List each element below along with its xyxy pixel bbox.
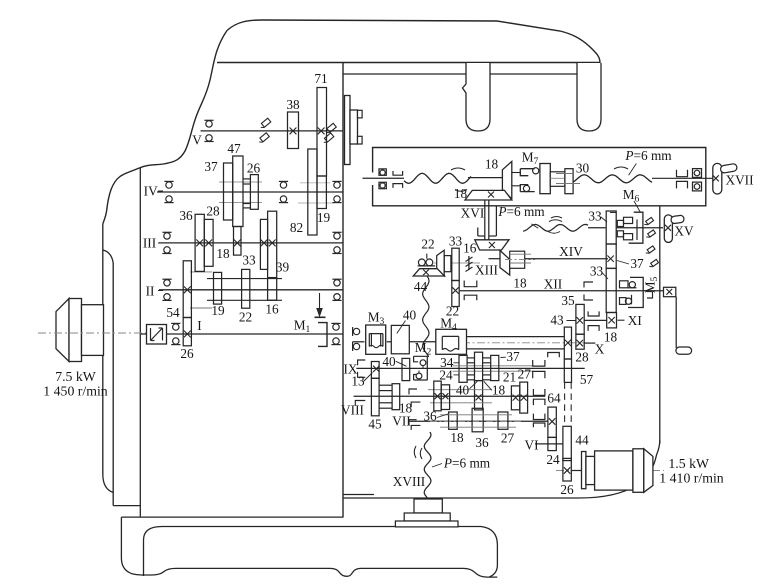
svg-text:28: 28 xyxy=(575,350,589,365)
svg-text:24: 24 xyxy=(546,452,560,467)
spline lines IX xyxy=(453,365,535,367)
svg-text:27: 27 xyxy=(518,366,532,381)
svg-text:26: 26 xyxy=(560,482,574,497)
bevel square crank xyxy=(664,287,676,296)
bearing screw right xyxy=(693,169,702,178)
x 28col xyxy=(565,340,571,346)
gear 30 xyxy=(565,169,573,194)
gear 28 on III xyxy=(204,219,213,266)
table lead screw housing box xyxy=(373,148,706,206)
shaft IX xyxy=(356,367,584,369)
bearing I right xyxy=(333,324,339,330)
svg-text:XVII: XVII xyxy=(725,172,753,187)
handle XVII xyxy=(713,163,722,194)
svg-text:27: 27 xyxy=(501,430,515,445)
x gear26i xyxy=(184,331,191,338)
x gear39 xyxy=(269,240,276,247)
shaft X left line xyxy=(352,341,364,343)
right column right wall lower xyxy=(659,206,661,444)
svg-text:45: 45 xyxy=(368,417,382,432)
clutch M6 xyxy=(617,220,623,226)
leader 33 low xyxy=(602,273,608,280)
svg-text:XI: XI xyxy=(628,313,642,328)
mesh lines shaft II cluster xyxy=(207,278,282,280)
flags M5 xyxy=(647,246,655,253)
shaft XVI vertical xyxy=(484,201,486,240)
link lines bevel-M7 xyxy=(512,172,521,174)
gear 19 on IV xyxy=(317,176,326,209)
gear 33 on XIII col xyxy=(452,248,459,280)
mesh lines hub XIV xyxy=(510,253,531,255)
gear 82 on IV xyxy=(308,149,317,235)
svg-text:16: 16 xyxy=(265,302,279,317)
leader 40VIII xyxy=(470,381,478,389)
x 26motor xyxy=(564,467,570,473)
svg-text:71: 71 xyxy=(314,71,327,86)
gear 33 on III xyxy=(260,219,267,269)
svg-text:IV: IV xyxy=(144,183,158,198)
hub bevel left of XIII xyxy=(437,250,445,276)
shaft XI line xyxy=(584,319,607,321)
spindle block xyxy=(345,96,351,165)
svg-text:18: 18 xyxy=(492,383,506,398)
svg-text:44: 44 xyxy=(414,279,428,294)
shaft XV line xyxy=(588,227,606,229)
shaft VI xyxy=(535,443,563,445)
mesh lines shaft IV cluster xyxy=(219,181,262,183)
gear 13 on IX xyxy=(371,362,379,379)
gear 21 on VIII xyxy=(511,386,519,410)
gear 22 circles on XIII xyxy=(418,259,425,266)
brackets screw right xyxy=(677,170,688,177)
x 21 xyxy=(513,395,519,401)
label M5 rotated xyxy=(643,276,661,293)
gear 40 on IX xyxy=(402,358,410,380)
svg-text:XVI: XVI xyxy=(461,206,485,221)
bearing II left xyxy=(164,280,170,286)
svg-text:26: 26 xyxy=(180,346,194,361)
feed motor body xyxy=(595,451,633,490)
svg-text:7.5 kW: 7.5 kW xyxy=(55,369,96,384)
shaft VII xyxy=(408,420,548,422)
svg-text:24: 24 xyxy=(439,368,453,383)
gear 26 on IV xyxy=(250,175,258,210)
right column top edge xyxy=(343,73,577,75)
svg-text:40: 40 xyxy=(456,383,470,398)
gear 35-43 xyxy=(576,304,584,334)
brackets XII right xyxy=(584,282,593,300)
overarm support leg right xyxy=(577,63,601,131)
x gear36 xyxy=(196,240,203,247)
base outer outline xyxy=(121,517,497,577)
bracket VIII right xyxy=(533,389,545,395)
leader 33 top xyxy=(601,217,607,222)
clutch M7 body xyxy=(540,164,550,194)
svg-text:1 410 r/min: 1 410 r/min xyxy=(659,470,723,485)
gear mid col lower on VIII xyxy=(475,381,483,410)
M7 hub xyxy=(550,172,565,187)
x bevel44 xyxy=(423,270,429,276)
gear 28 on X col xyxy=(564,327,571,359)
x 24a xyxy=(435,393,441,399)
handle XV xyxy=(664,215,672,243)
leader 13 xyxy=(364,373,373,382)
svg-text:16: 16 xyxy=(463,240,477,255)
gear 26 motor xyxy=(563,458,571,481)
gear 34 on IX xyxy=(459,355,467,382)
bearing V left xyxy=(206,121,212,127)
svg-text:P=6 mm: P=6 mm xyxy=(443,455,491,470)
svg-text:44: 44 xyxy=(575,432,589,447)
brackets VIII left xyxy=(355,401,365,406)
gear 40 on X xyxy=(391,325,409,353)
svg-text:VII: VII xyxy=(392,413,410,428)
svg-text:18: 18 xyxy=(513,276,527,291)
svg-text:I: I xyxy=(197,318,201,333)
svg-text:13: 13 xyxy=(351,374,365,389)
svg-text:XV: XV xyxy=(674,224,694,239)
shaft VIII xyxy=(354,395,546,397)
right column bottom edge upper line xyxy=(343,494,374,496)
machine top cover outline xyxy=(227,20,600,63)
x 24b xyxy=(442,393,448,399)
shaft XIII center line xyxy=(434,262,480,264)
svg-text:III: III xyxy=(143,236,156,251)
svg-text:36: 36 xyxy=(179,208,193,223)
gear 26 on I xyxy=(183,318,191,346)
svg-text:18: 18 xyxy=(604,330,618,345)
x col XI xyxy=(608,317,614,323)
clutch M3 box xyxy=(366,325,386,354)
svg-text:35: 35 xyxy=(561,293,575,308)
gear 57 col xyxy=(564,359,571,382)
x col XIV xyxy=(607,256,613,262)
bearing screw left xyxy=(379,169,386,175)
bearing III right xyxy=(334,233,340,239)
sleeve bars 47-26 xyxy=(243,178,250,180)
bevel 18 upper on screw xyxy=(502,161,511,199)
brackets IX right xyxy=(533,360,545,366)
svg-text:57: 57 xyxy=(580,372,594,387)
svg-text:38: 38 xyxy=(286,97,300,112)
svg-text:82: 82 xyxy=(290,220,303,235)
gear 18 on VIII xyxy=(392,384,400,410)
svg-text:21: 21 xyxy=(503,369,516,384)
main motor center line xyxy=(38,332,147,334)
inner wall branch arc xyxy=(103,250,113,263)
overload clutch on I xyxy=(147,325,167,345)
gear 38 on V xyxy=(288,112,299,149)
x 43b xyxy=(577,340,583,346)
headstock top edge line xyxy=(217,62,600,64)
gear 27 on VIII xyxy=(520,382,528,413)
leader 40X xyxy=(397,321,406,334)
x gear28 xyxy=(205,240,212,247)
brackets VII right xyxy=(533,414,545,420)
bearing IV right xyxy=(334,182,340,188)
clutch M1 jaw xyxy=(318,323,327,347)
gear 22 on XII col xyxy=(452,281,459,307)
svg-text:19: 19 xyxy=(317,210,331,225)
bearing M3 left xyxy=(353,328,359,334)
svg-text:XII: XII xyxy=(544,276,562,291)
svg-text:30: 30 xyxy=(576,161,590,176)
gear 54 on II xyxy=(183,261,191,318)
bracket X left support xyxy=(548,353,560,358)
gear 22 on II xyxy=(242,269,250,308)
hub on XIV xyxy=(510,251,525,268)
crank handle xyxy=(676,347,692,354)
svg-text:33: 33 xyxy=(242,253,256,268)
gear 37 on IV xyxy=(224,163,233,220)
gear mid IX col upper xyxy=(475,352,483,380)
mesh lines gear30 xyxy=(556,173,573,175)
x gear71 xyxy=(318,128,325,135)
x 27viii xyxy=(521,395,527,401)
gear 16 spline xyxy=(468,256,470,270)
brackets VII left xyxy=(409,389,420,430)
feed motor spacer xyxy=(586,456,595,484)
svg-text:18: 18 xyxy=(450,430,464,445)
gear 19 on II xyxy=(214,272,222,304)
gear 36 on VII xyxy=(472,408,483,432)
svg-text:VI: VI xyxy=(524,437,538,452)
gear 16 on II xyxy=(268,278,277,301)
clutch M2 xyxy=(426,356,428,380)
wavy screw 44 down xyxy=(423,277,429,358)
break marks XV xyxy=(549,220,562,222)
svg-text:33: 33 xyxy=(588,208,602,223)
bearing II right xyxy=(334,280,340,286)
svg-text:VIII: VIII xyxy=(341,402,364,417)
leader P6 top xyxy=(629,164,637,176)
svg-text:XIV: XIV xyxy=(559,244,583,259)
shaft IV xyxy=(157,191,343,193)
clutch M4 box xyxy=(436,329,467,354)
x 64 xyxy=(549,418,555,424)
outer wall bottom arc xyxy=(103,474,113,493)
svg-text:36: 36 xyxy=(423,409,437,424)
brackets XI xyxy=(588,311,599,316)
headstock bottom edge xyxy=(121,516,343,518)
gear 27 on VII xyxy=(498,412,508,429)
shaft XIV xyxy=(489,258,501,260)
x gear38 xyxy=(290,128,297,135)
shift flags spindle xyxy=(327,123,336,132)
x mid col VIII xyxy=(476,394,482,400)
svg-text:40: 40 xyxy=(382,354,396,369)
center line VII cluster xyxy=(430,421,522,423)
leader M6 xyxy=(634,201,641,213)
bevel 18 on XIV xyxy=(500,251,510,276)
x 43 xyxy=(577,317,583,323)
gear 71 on V xyxy=(317,88,327,177)
shaft III xyxy=(159,242,343,244)
arrow onto M1 xyxy=(319,293,321,311)
x gear33iii xyxy=(261,240,268,247)
gear 64 on VII xyxy=(548,407,556,437)
gear 39 on III xyxy=(268,211,277,277)
svg-text:19: 19 xyxy=(211,303,225,318)
gear 18 on XI col xyxy=(607,313,617,328)
svg-text:64: 64 xyxy=(547,391,561,406)
screw right end xyxy=(652,177,716,179)
svg-text:28: 28 xyxy=(206,204,220,219)
break marks right xyxy=(614,167,628,169)
leader 18b xyxy=(484,381,492,390)
x gear13 xyxy=(373,366,379,372)
bevel 18 on XVI top xyxy=(465,190,512,200)
shift flags V left xyxy=(261,118,270,127)
gear 24b on VIII xyxy=(441,385,449,410)
x bevel XVI bottom xyxy=(489,242,495,248)
lead screw XV wavy xyxy=(523,224,588,231)
gear 45 on VIII xyxy=(371,378,379,416)
break marks left xyxy=(451,168,465,170)
svg-text:47: 47 xyxy=(227,141,241,156)
brackets IX left xyxy=(358,360,366,377)
leader 36VII xyxy=(437,414,448,418)
mesh lines VII cluster xyxy=(440,414,512,416)
shaft XII xyxy=(460,290,664,292)
svg-text:1.5 kW: 1.5 kW xyxy=(668,456,709,471)
svg-text:43: 43 xyxy=(550,313,564,328)
gear 24 on VI xyxy=(548,437,556,450)
break marks XVIII xyxy=(414,446,416,458)
clutch M7 jaw xyxy=(520,169,534,192)
machine outer left wall xyxy=(102,224,104,474)
bearing IV mid xyxy=(280,182,286,188)
leader 40IX xyxy=(396,361,407,366)
bracket stub left xyxy=(393,171,403,175)
svg-text:37: 37 xyxy=(506,349,520,364)
bearing III left xyxy=(164,233,170,239)
lead screw XVII wavy right xyxy=(573,175,652,183)
bracket XVI left xyxy=(477,228,479,237)
clutch M5 xyxy=(628,277,643,307)
leader 37IX xyxy=(501,356,506,358)
main motor 7.5kW body xyxy=(56,299,69,362)
gear 47 on IV xyxy=(233,156,243,227)
lead screw XVII wavy left xyxy=(404,173,471,183)
bevel on XVI bottom xyxy=(475,240,509,250)
gear 37 on IX xyxy=(491,355,499,380)
screw XVII left stub xyxy=(363,177,405,179)
lead screw XVIII wavy xyxy=(424,432,431,499)
gear 33 on XII col xyxy=(606,268,616,312)
svg-text:36: 36 xyxy=(475,435,489,450)
shaft X hollow xyxy=(466,336,564,338)
svg-text:54: 54 xyxy=(166,305,180,320)
feed motor ring xyxy=(633,449,644,493)
leader 43 xyxy=(567,320,576,322)
svg-text:18: 18 xyxy=(454,186,468,201)
x gear54 xyxy=(184,286,191,293)
bearing I left xyxy=(173,324,179,330)
gear 37 on XIV col xyxy=(606,244,616,268)
slider bars IX xyxy=(467,357,474,359)
svg-text:26: 26 xyxy=(247,161,261,176)
slider bars 45-18 xyxy=(379,384,392,386)
svg-text:XIII: XIII xyxy=(475,263,498,278)
x gear18iii xyxy=(234,240,241,247)
gear 33 on XV col xyxy=(606,211,616,244)
svg-text:37: 37 xyxy=(204,159,218,174)
shaft II xyxy=(159,289,343,291)
svg-text:33: 33 xyxy=(590,263,604,278)
svg-text:II: II xyxy=(146,284,155,299)
svg-text:X: X xyxy=(595,342,605,357)
gear 24a on VIII xyxy=(434,381,441,411)
gear 44 on VI xyxy=(563,426,571,460)
svg-text:18: 18 xyxy=(485,157,499,172)
svg-text:37: 37 xyxy=(630,256,644,271)
gear 36 on III xyxy=(195,214,204,271)
left wall bottom step xyxy=(113,505,140,507)
svg-text:P=6 mm: P=6 mm xyxy=(624,148,672,163)
feed motor endcap xyxy=(644,449,653,493)
x bevel top xyxy=(488,192,494,198)
svg-text:33: 33 xyxy=(449,233,463,248)
shaft V xyxy=(201,130,344,132)
mesh lines VIII cluster xyxy=(428,389,492,391)
gear 18 on III xyxy=(234,227,242,256)
brackets XII left xyxy=(464,281,477,287)
machine inner left wall xyxy=(112,263,114,506)
svg-text:P=6 mm: P=6 mm xyxy=(497,204,545,219)
bevel 44 under XIII xyxy=(413,269,444,276)
svg-text:XVIII: XVIII xyxy=(393,474,426,489)
feed motor flange xyxy=(582,452,586,489)
svg-text:39: 39 xyxy=(276,260,290,275)
mesh lines gear 82-19 xyxy=(300,182,330,184)
leader P6 bottom xyxy=(432,464,442,468)
x gear22 xii xyxy=(452,287,458,293)
shaft X right stub xyxy=(584,342,595,344)
right column bottom edge xyxy=(343,440,660,498)
crank rod xyxy=(675,297,677,348)
bracket XVI right xyxy=(495,206,497,236)
base inner face xyxy=(144,527,498,577)
svg-text:18: 18 xyxy=(216,246,230,261)
svg-text:1 450 r/min: 1 450 r/min xyxy=(43,384,107,399)
leader 37 xyxy=(617,261,629,265)
overarm support leg left xyxy=(463,63,491,131)
pedestal under XVIII xyxy=(414,499,442,513)
column top stub xyxy=(610,211,617,213)
flags XV xyxy=(646,217,654,224)
svg-text:22: 22 xyxy=(239,310,252,325)
shaft I xyxy=(141,333,343,335)
svg-text:22: 22 xyxy=(421,237,434,252)
motor2 center line xyxy=(556,470,664,472)
screw line into bevel xyxy=(468,177,502,179)
machine left S-curve xyxy=(103,31,227,225)
motor2 shaft xyxy=(571,470,581,472)
svg-text:40: 40 xyxy=(403,308,417,323)
svg-text:V: V xyxy=(192,133,202,148)
bearing IV left xyxy=(166,182,172,188)
headstock inner left wall xyxy=(139,168,141,517)
headstock right wall xyxy=(342,63,344,518)
dashed slide position xyxy=(564,382,566,425)
gear 18 on VII xyxy=(449,412,458,429)
